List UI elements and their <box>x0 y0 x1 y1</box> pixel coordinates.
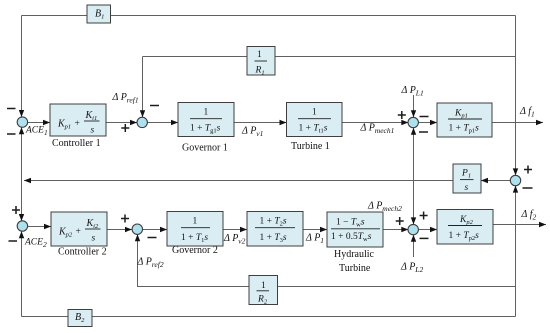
svg-text:Δ Pref2: Δ Pref2 <box>137 257 164 269</box>
svg-text:Controller 1: Controller 1 <box>52 138 101 149</box>
svg-text:s: s <box>92 234 96 244</box>
svg-text:Δ f1: Δ f1 <box>519 106 535 118</box>
svg-text:1: 1 <box>204 108 209 118</box>
svg-text:Δ Pref1: Δ Pref1 <box>112 92 139 104</box>
svg-text:+: + <box>75 119 80 129</box>
svg-text:1 + T2s: 1 + T2s <box>260 217 287 228</box>
svg-text:1 + Tt1s: 1 + Tt1s <box>299 124 328 135</box>
svg-text:Δ Pv2: Δ Pv2 <box>223 233 246 245</box>
svg-text:1 + Tp1s: 1 + Tp1s <box>449 124 480 135</box>
svg-text:ACE1: ACE1 <box>25 126 48 137</box>
svg-text:ACE2: ACE2 <box>24 238 47 249</box>
svg-text:s: s <box>465 183 469 193</box>
svg-text:Δ P1: Δ P1 <box>305 233 324 245</box>
svg-text:1 + Tp2s: 1 + Tp2s <box>449 231 480 242</box>
svg-text:Turbine 1: Turbine 1 <box>291 141 330 152</box>
svg-text:1 − Tws: 1 − Tws <box>336 217 365 228</box>
svg-text:1: 1 <box>261 281 266 291</box>
svg-text:Δ Pmech2: Δ Pmech2 <box>367 201 402 213</box>
svg-text:+: + <box>76 227 81 237</box>
svg-text:Δ f2: Δ f2 <box>521 209 537 221</box>
svg-text:Governor 1: Governor 1 <box>182 143 228 154</box>
svg-text:1: 1 <box>257 50 262 60</box>
svg-text:s: s <box>91 126 95 136</box>
svg-text:1: 1 <box>312 108 317 118</box>
svg-text:Δ Pv1: Δ Pv1 <box>241 126 263 138</box>
svg-text:Δ Pmech1: Δ Pmech1 <box>360 123 395 135</box>
svg-text:1 + Tg1s: 1 + Tg1s <box>190 124 221 135</box>
svg-text:1 + T3s: 1 + T3s <box>260 233 287 244</box>
svg-text:1: 1 <box>193 217 198 227</box>
svg-text:Governor 2: Governor 2 <box>172 245 218 256</box>
svg-text:1 + T1s: 1 + T1s <box>181 233 208 244</box>
svg-text:Δ PL1: Δ PL1 <box>401 85 424 97</box>
svg-text:Turbine: Turbine <box>339 263 371 274</box>
svg-text:Controller 2: Controller 2 <box>58 247 107 258</box>
svg-text:Δ PL2: Δ PL2 <box>400 262 423 274</box>
svg-text:Hydraulic: Hydraulic <box>334 249 375 260</box>
